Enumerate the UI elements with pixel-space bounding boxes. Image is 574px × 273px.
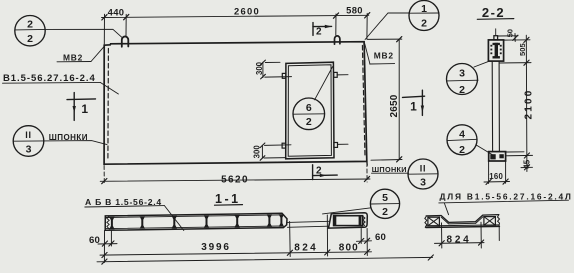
svg-text:45: 45 — [523, 159, 532, 168]
right piece inner bottom line — [426, 225, 499, 226]
svg-text:60: 60 — [375, 232, 386, 243]
dashed inset line right edge — [362, 46, 365, 158]
circle II/3 left — [13, 126, 44, 157]
dim 300 top: extension lines, dim line, ticks — [263, 62, 348, 77]
svg-text:ШПОНКИ: ШПОНКИ — [372, 165, 407, 174]
svg-text:300: 300 — [252, 145, 261, 159]
bottom dim line 2 (overall) — [97, 257, 433, 261]
svg-text:МВ2: МВ2 — [374, 50, 394, 60]
circle II/3 right — [408, 159, 438, 189]
svg-text:60: 60 — [89, 235, 100, 246]
opening tab right top — [334, 72, 338, 77]
door opening outer rect — [286, 62, 334, 159]
2-2 top block — [488, 40, 503, 61]
svg-text:А Б В 1.5-56-2.4: А Б В 1.5-56-2.4 — [85, 197, 162, 207]
svg-text:2: 2 — [316, 165, 322, 176]
right piece left end zigzag — [425, 216, 427, 227]
extension x=289.6 — [289, 222, 292, 257]
right piece sill second line — [449, 222, 475, 225]
svg-text:2: 2 — [421, 18, 427, 30]
svg-text:3: 3 — [26, 143, 32, 155]
extension line right corner — [366, 13, 368, 39]
svg-text:2: 2 — [27, 19, 33, 31]
dim 60 left line — [98, 243, 117, 245]
160 dim — [488, 161, 490, 183]
extension x=327.3 — [326, 215, 328, 256]
svg-text:II: II — [25, 130, 32, 140]
label MV2 left underline + leader — [57, 61, 91, 63]
tick marks top dimension — [102, 13, 370, 20]
sill lines across opening gap — [287, 221, 329, 222]
tick marks bottom dims — [102, 238, 434, 264]
piece 5/2 black bars — [334, 216, 362, 226]
2-2 bottom block — [489, 152, 506, 161]
2-2 dimensions — [484, 34, 533, 184]
title 1-1 underline — [215, 204, 243, 207]
strip 1 inner top line — [106, 215, 281, 218]
svg-text:1: 1 — [81, 102, 88, 116]
circle 5/2 — [370, 189, 399, 218]
leader circle 2/2 — [45, 29, 122, 38]
circle 6/2 — [293, 98, 325, 130]
shponki right underline — [372, 172, 409, 174]
svg-text:300: 300 — [255, 61, 264, 75]
circle 4/2 — [447, 125, 477, 155]
right piece (2.4L) top profile — [426, 215, 499, 223]
svg-text:1: 1 — [421, 3, 427, 15]
svg-text:2: 2 — [27, 33, 33, 45]
2-2 top block I-anchor fill — [490, 43, 504, 160]
dim 300 bottom: extension lines, dim line, ticks — [262, 144, 348, 158]
opening tab right bottom — [334, 143, 338, 148]
svg-text:2: 2 — [306, 116, 312, 128]
svg-text:3996: 3996 — [201, 242, 230, 253]
svg-text:2650: 2650 — [389, 94, 400, 117]
leader to circle 6/2 — [315, 67, 333, 100]
top dimension line — [102, 15, 369, 17]
circle 3/2 — [446, 64, 478, 155]
leader circle 1/2 — [365, 13, 409, 40]
svg-text:В1.5-56.27.16-2.4: В1.5-56.27.16-2.4 — [3, 73, 96, 84]
extension line loop2 — [335, 14, 337, 35]
label MV2 right underline + leader — [370, 63, 395, 65]
extension x=367.1 — [366, 229, 368, 256]
shponki left leader — [44, 141, 107, 145]
section mark 2 bottom — [313, 165, 338, 180]
label ABV underline + leader — [85, 206, 165, 207]
svg-text:440: 440 — [108, 7, 125, 18]
opening tab left bottom — [282, 143, 286, 148]
extension x=111.4 for 60 — [110, 230, 112, 246]
leaders circles 3/2, 4/2 — [474, 61, 492, 155]
section mark 2 top — [313, 23, 332, 36]
svg-text:2-2: 2-2 — [482, 5, 505, 20]
svg-text:МВ2: МВ2 — [63, 52, 83, 62]
svg-text:580: 580 — [346, 4, 363, 15]
right piece right end zigzag — [498, 215, 500, 226]
svg-text:ШПОНКИ: ШПОНКИ — [49, 133, 88, 142]
piece 5/2 inner rect — [334, 216, 363, 226]
title 2-2 underline — [477, 18, 514, 21]
long extension left x=104.4 — [103, 231, 105, 263]
dashed inset line left edge — [107, 49, 110, 161]
extension x=361.2 for 60 — [360, 229, 362, 244]
svg-text:824: 824 — [294, 243, 318, 254]
svg-text:824: 824 — [446, 234, 471, 245]
dim 5620: dashed extensions, dim line, ticks — [103, 166, 105, 184]
svg-text:160: 160 — [489, 172, 503, 181]
svg-text:800: 800 — [339, 242, 359, 253]
section mark 1 left — [67, 93, 96, 121]
2-2 shaft lines — [491, 61, 493, 152]
panel outline (elevation) — [104, 42, 367, 165]
svg-text:2: 2 — [459, 144, 465, 156]
piece 5/2 right inner zigzag — [363, 216, 366, 225]
dim 2650: extensions, dim line, ticks — [368, 39, 403, 160]
section mark 1 right — [403, 90, 425, 115]
lifting loop MV2 no.1 — [122, 36, 129, 46]
svg-text:505: 505 — [518, 42, 527, 55]
circle 1/2 — [409, 1, 439, 31]
svg-text:II: II — [420, 164, 427, 174]
svg-text:4: 4 — [459, 129, 465, 141]
opening tab left top — [282, 73, 286, 78]
leader circle 5/2 — [323, 208, 372, 214]
piece 5/2 outline — [329, 213, 368, 228]
strip 1 inner bottom line — [106, 226, 282, 229]
strip 1 outline — [105, 213, 287, 230]
right piece block2 square with X — [484, 217, 496, 226]
svg-text:6: 6 — [306, 102, 312, 114]
svg-text:5620: 5620 — [221, 174, 249, 185]
svg-text:2: 2 — [316, 27, 322, 38]
svg-text:50: 50 — [506, 29, 515, 37]
extension line left corner — [103, 14, 105, 44]
svg-text:3: 3 — [420, 176, 426, 188]
svg-text:ДЛЯ В1.5-56.27.16-2.4Л: ДЛЯ В1.5-56.27.16-2.4Л — [440, 191, 573, 201]
circle 2/2 — [15, 16, 45, 46]
dim 60 right line — [357, 240, 372, 243]
right piece bottom edge — [426, 226, 500, 227]
lifting loop MV2 no.2 — [335, 36, 340, 44]
svg-text:5: 5 — [382, 192, 388, 204]
svg-text:2600: 2600 — [234, 5, 260, 16]
label DLYa underline + leader — [439, 200, 569, 203]
svg-text:2: 2 — [382, 206, 388, 218]
svg-text:1-1: 1-1 — [215, 192, 241, 206]
2-2 loop protrusion — [494, 36, 498, 40]
svg-text:2: 2 — [459, 84, 465, 96]
2-2 bottom block anchor fills — [490, 154, 495, 159]
extension line loop1 — [125, 14, 127, 35]
bottom dim line 1 (3996/824/800) — [100, 252, 372, 255]
right edge overshoot — [366, 161, 368, 165]
svg-text:2100: 2100 — [524, 88, 535, 119]
right piece block1 square with X — [428, 217, 440, 226]
strip 1 ribs (bowties) — [109, 214, 284, 229]
strip 1 left end zigzag — [107, 216, 109, 229]
svg-text:1: 1 — [410, 100, 417, 114]
label B1.5 underline + leader — [3, 81, 101, 84]
door opening inner rect — [288, 65, 331, 157]
svg-text:3: 3 — [459, 67, 465, 79]
